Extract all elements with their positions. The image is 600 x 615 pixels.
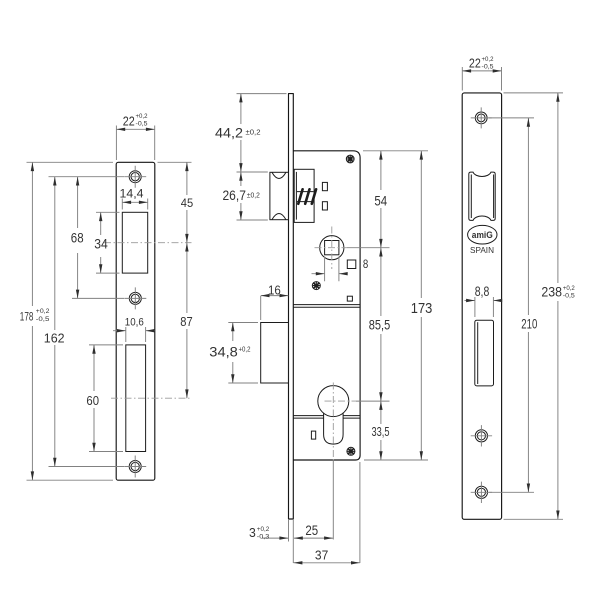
dimension 178 xyxy=(20,162,113,480)
faceplate screw hole top xyxy=(471,107,492,128)
svg-text:22: 22 xyxy=(469,55,481,70)
pin rectangle lower xyxy=(322,202,327,210)
svg-text:+0,2: +0,2 xyxy=(563,285,575,292)
case screw top xyxy=(346,155,354,163)
svg-text:16: 16 xyxy=(268,282,281,297)
strike plate screw hole middle xyxy=(124,287,146,309)
dimension 34,8 xyxy=(209,323,258,384)
svg-text:±0,2: ±0,2 xyxy=(247,192,260,199)
dimension 3 forend thickness xyxy=(249,519,293,563)
svg-text:+0,2: +0,2 xyxy=(482,56,494,63)
dimension 22 strike plate xyxy=(116,113,154,160)
svg-text:25: 25 xyxy=(305,523,318,538)
svg-text:-0,3: -0,3 xyxy=(257,534,270,541)
dimension 87 xyxy=(180,243,192,399)
svg-text:87: 87 xyxy=(180,315,192,329)
dimension 8,8 xyxy=(465,284,503,317)
dimension 14,4 xyxy=(120,187,148,210)
svg-text:+0,2: +0,2 xyxy=(36,308,50,315)
svg-text:44,2: 44,2 xyxy=(215,124,243,140)
svg-text:14,4: 14,4 xyxy=(120,187,144,201)
svg-text:34: 34 xyxy=(94,236,108,251)
dimension 33,5 xyxy=(372,401,390,460)
svg-text:162: 162 xyxy=(44,330,65,345)
svg-text:45: 45 xyxy=(181,196,194,210)
faceplate latch cutout xyxy=(469,172,495,220)
dimension 45 xyxy=(158,162,194,242)
dimension 16 xyxy=(261,282,289,320)
pin rectangle upper xyxy=(322,182,327,190)
dimension 44,2 xyxy=(215,94,287,172)
lock forend plate xyxy=(289,94,294,519)
strike plate screw hole top xyxy=(124,166,146,188)
spindle follower circle xyxy=(320,236,344,260)
dimension 26,7 xyxy=(223,172,268,220)
svg-text:-0,5: -0,5 xyxy=(136,121,148,128)
svg-text:34,8: 34,8 xyxy=(209,345,238,360)
square 8 dimension xyxy=(312,257,348,282)
dimension 162 xyxy=(44,177,124,467)
svg-text:54: 54 xyxy=(374,193,387,208)
deadbolt box xyxy=(261,323,289,384)
spindle centerlines xyxy=(315,227,348,270)
svg-text:8,8: 8,8 xyxy=(475,284,490,299)
euro cylinder centerlines xyxy=(325,383,357,461)
square symbol and 8 label xyxy=(347,259,368,271)
small keyhole rect xyxy=(311,431,315,439)
svg-text:3: 3 xyxy=(249,526,256,540)
case screw middle xyxy=(312,282,320,290)
svg-text:22: 22 xyxy=(123,114,135,128)
dimension 54 xyxy=(347,151,428,248)
euro cylinder lobe xyxy=(324,413,344,444)
latch housing with spring xyxy=(294,169,314,222)
lock case outline xyxy=(293,151,360,460)
spindle square hole xyxy=(325,241,339,255)
faceplate screw hole middle xyxy=(471,425,492,446)
dimension 210 xyxy=(489,118,538,492)
svg-text:238: 238 xyxy=(541,284,562,299)
svg-text:85,5: 85,5 xyxy=(369,318,391,333)
svg-text:37: 37 xyxy=(315,547,328,562)
svg-text:+0,2: +0,2 xyxy=(136,113,148,120)
latch opening centerline xyxy=(104,242,192,244)
AMIG logo oval xyxy=(468,225,497,244)
svg-text:26,7: 26,7 xyxy=(223,187,247,203)
svg-text:amiG: amiG xyxy=(472,230,493,240)
slot centerline xyxy=(111,397,191,399)
strike plate outline xyxy=(116,162,155,480)
dimension 173 xyxy=(364,151,432,460)
svg-text:SPAIN: SPAIN xyxy=(470,246,494,255)
svg-text:+0,2: +0,2 xyxy=(257,526,270,533)
case seam upper xyxy=(293,305,360,308)
strike plate screw hole bottom xyxy=(124,456,146,478)
small plate rect mid xyxy=(347,296,352,301)
case seam lower xyxy=(293,416,360,419)
faceplate screw hole bottom xyxy=(471,482,492,503)
svg-text:173: 173 xyxy=(411,300,433,317)
svg-text:10,6: 10,6 xyxy=(125,317,144,329)
svg-text:-0,5: -0,5 xyxy=(36,316,50,323)
dimension 37 case depth xyxy=(294,462,360,565)
dimension 22 faceplate xyxy=(462,55,501,90)
dimension 85,5 xyxy=(356,248,391,401)
svg-text:33,5: 33,5 xyxy=(372,425,390,439)
dimension 34 xyxy=(94,212,119,273)
dimension 60 xyxy=(86,345,123,452)
spring xyxy=(297,189,316,204)
svg-text:-0,5: -0,5 xyxy=(482,63,494,70)
svg-text:60: 60 xyxy=(86,393,99,408)
strike plate deadbolt slot xyxy=(126,345,146,452)
svg-text:210: 210 xyxy=(521,316,537,331)
strike plate latch opening xyxy=(122,212,147,273)
dimension 68 xyxy=(71,177,124,299)
dimension 238 xyxy=(504,93,576,519)
euro cylinder circle xyxy=(318,386,349,417)
faceplate deadbolt slot xyxy=(475,320,494,386)
latch bolt side view xyxy=(270,172,289,219)
svg-text:8: 8 xyxy=(363,259,368,271)
case screw bottom xyxy=(347,447,355,455)
faceplate outline xyxy=(462,93,501,519)
svg-text:±0,2: ±0,2 xyxy=(246,130,261,137)
dimension 25 backset xyxy=(294,460,333,540)
svg-text:68: 68 xyxy=(71,230,84,245)
svg-text:-0,5: -0,5 xyxy=(563,292,575,299)
svg-text:+0,2: +0,2 xyxy=(239,347,251,354)
dimension 10,6 xyxy=(113,317,155,343)
svg-text:178: 178 xyxy=(20,312,34,324)
